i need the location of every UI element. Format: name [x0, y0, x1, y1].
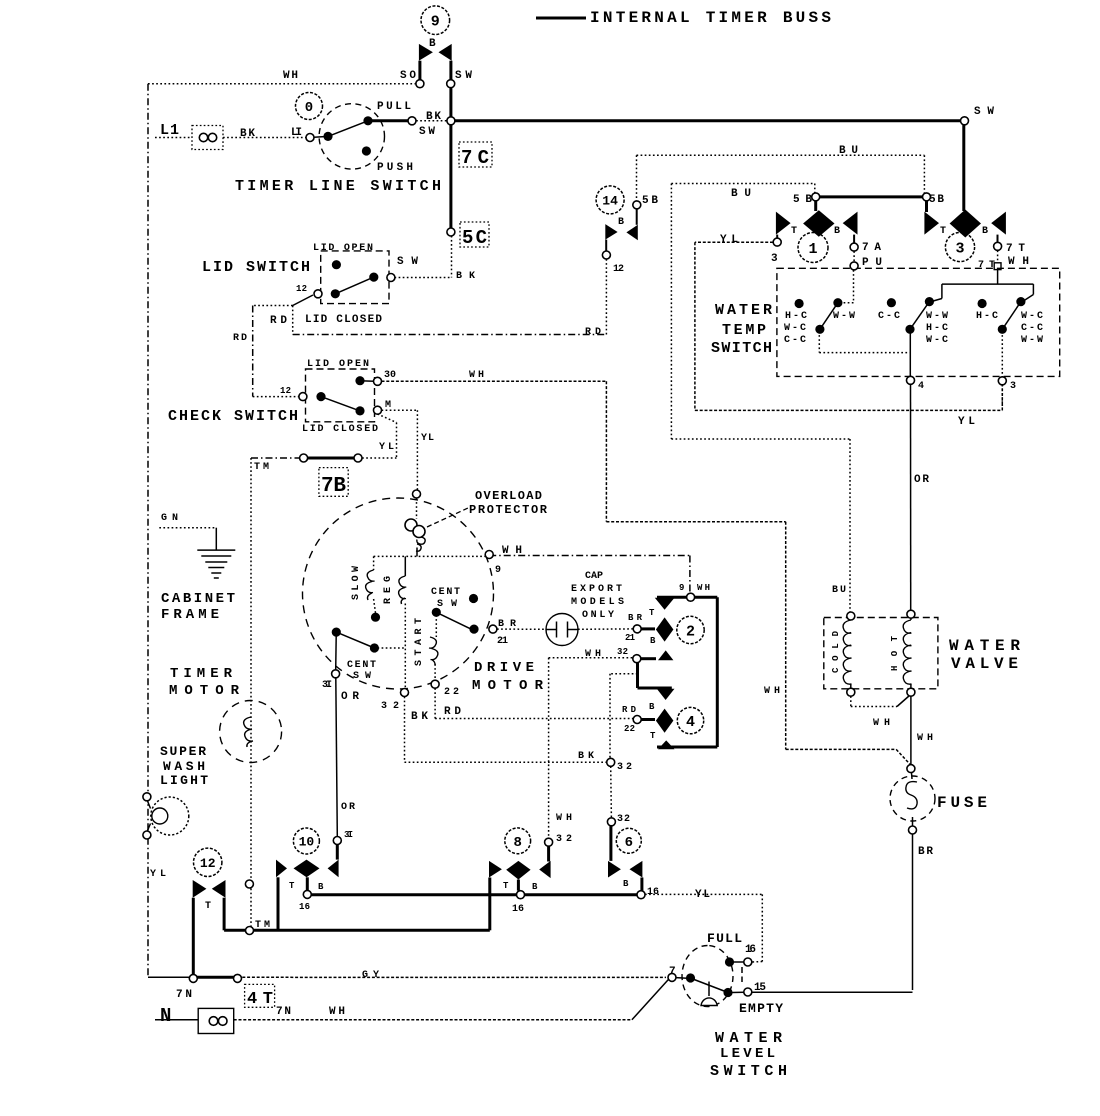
svg-text:LIGHT: LIGHT: [160, 773, 208, 788]
svg-text:CHECK SWITCH: CHECK SWITCH: [168, 408, 298, 425]
svg-text:FULL: FULL: [707, 931, 742, 946]
svg-text:3: 3: [771, 253, 778, 265]
svg-text:3: 3: [955, 240, 964, 257]
svg-text:BK: BK: [426, 111, 441, 123]
svg-text:CAP: CAP: [585, 571, 603, 582]
svg-text:B: B: [318, 882, 324, 892]
svg-text:3I: 3I: [344, 830, 353, 840]
svg-text:W-W: W-W: [1021, 335, 1043, 346]
svg-text:SUPER: SUPER: [160, 744, 206, 759]
svg-text:16: 16: [647, 887, 659, 898]
svg-text:W-C: W-C: [784, 323, 806, 334]
svg-text:0: 0: [305, 100, 313, 116]
svg-text:C-C: C-C: [878, 311, 900, 322]
svg-text:3I: 3I: [322, 680, 332, 691]
svg-text:16: 16: [512, 904, 524, 915]
svg-text:B: B: [834, 226, 840, 237]
svg-text:PROTECTOR: PROTECTOR: [469, 503, 548, 517]
svg-text:WH: WH: [283, 70, 298, 82]
svg-text:3: 3: [1010, 381, 1016, 392]
svg-text:30: 30: [384, 370, 396, 381]
svg-text:H-C: H-C: [926, 323, 948, 334]
svg-text:22: 22: [624, 724, 635, 734]
svg-text:B: B: [650, 636, 656, 646]
svg-text:W-C: W-C: [1021, 311, 1043, 322]
svg-text:WATER: WATER: [715, 302, 772, 319]
svg-text:16: 16: [299, 902, 310, 912]
svg-text:2: 2: [686, 623, 695, 640]
svg-text:LI: LI: [291, 127, 302, 139]
svg-text:10: 10: [299, 835, 315, 850]
svg-text:9: 9: [431, 14, 440, 31]
svg-text:LID CLOSED: LID CLOSED: [305, 314, 382, 326]
svg-text:HOT: HOT: [890, 635, 900, 671]
svg-text:12: 12: [613, 264, 624, 275]
svg-text:YL: YL: [695, 889, 710, 901]
svg-text:T: T: [289, 881, 295, 891]
svg-text:W-W: W-W: [833, 311, 855, 322]
svg-text:5B: 5B: [929, 194, 944, 206]
svg-text:OVERLOAD: OVERLOAD: [475, 489, 542, 503]
svg-text:T: T: [940, 226, 946, 237]
svg-text:8: 8: [513, 835, 521, 851]
svg-text:16: 16: [745, 944, 756, 956]
svg-text:REG: REG: [383, 576, 394, 604]
svg-text:1: 1: [808, 241, 817, 258]
svg-text:T: T: [650, 731, 656, 741]
svg-text:9: 9: [679, 583, 684, 593]
svg-text:LID CLOSED: LID CLOSED: [302, 424, 378, 435]
svg-text:LID OPEN: LID OPEN: [307, 359, 369, 370]
svg-text:W-C: W-C: [926, 335, 948, 346]
svg-text:T: T: [503, 881, 509, 891]
svg-text:C-C: C-C: [784, 335, 806, 346]
svg-text:N: N: [160, 1005, 171, 1027]
svg-text:12: 12: [200, 856, 216, 871]
svg-text:B: B: [532, 882, 538, 892]
svg-text:12: 12: [280, 386, 291, 396]
svg-text:7: 7: [669, 966, 676, 978]
svg-text:BR: BR: [918, 846, 933, 858]
svg-text:B: B: [429, 38, 436, 50]
svg-text:L1: L1: [160, 122, 179, 139]
svg-text:T: T: [791, 226, 797, 237]
svg-text:6: 6: [625, 835, 633, 851]
svg-text:32: 32: [617, 814, 630, 825]
svg-text:21: 21: [625, 633, 636, 643]
svg-text:7B: 7B: [321, 475, 346, 498]
svg-text:YL: YL: [421, 433, 434, 444]
svg-text:B: B: [649, 702, 655, 712]
svg-text:15: 15: [754, 982, 766, 994]
svg-text:H-C: H-C: [785, 311, 807, 322]
svg-text:W-W: W-W: [926, 311, 948, 322]
svg-text:BU: BU: [832, 585, 846, 596]
svg-text:M: M: [385, 400, 391, 411]
svg-text:14: 14: [602, 194, 618, 209]
svg-text:B: B: [623, 879, 629, 889]
svg-text:RD: RD: [233, 333, 247, 344]
svg-text:EMPTY: EMPTY: [739, 1001, 783, 1016]
svg-text:32: 32: [617, 647, 628, 657]
svg-text:C-C: C-C: [1021, 323, 1043, 334]
svg-text:CENT: CENT: [347, 660, 376, 671]
svg-text:B: B: [982, 226, 988, 237]
svg-text:B: B: [618, 217, 624, 228]
svg-text:T: T: [649, 608, 655, 618]
svg-text:H-C: H-C: [976, 311, 998, 322]
svg-text:LID OPEN: LID OPEN: [313, 243, 373, 254]
svg-text:4: 4: [686, 714, 695, 731]
svg-text:7N: 7N: [276, 1006, 291, 1018]
svg-text:9: 9: [495, 565, 501, 576]
svg-text:12: 12: [296, 284, 307, 294]
svg-text:4: 4: [918, 381, 924, 392]
svg-text:CENT: CENT: [431, 587, 460, 598]
svg-text:BK: BK: [240, 128, 255, 140]
svg-text:21: 21: [497, 636, 508, 647]
svg-text:CABINET: CABINET: [161, 591, 235, 607]
svg-text:OR: OR: [914, 474, 929, 486]
svg-text:LID SWITCH: LID SWITCH: [202, 259, 310, 276]
svg-text:LEVEL: LEVEL: [720, 1046, 775, 1062]
svg-text:T: T: [205, 901, 211, 912]
svg-text:TIMER LINE SWITCH: TIMER LINE SWITCH: [235, 178, 441, 195]
svg-text:OR: OR: [341, 802, 355, 813]
